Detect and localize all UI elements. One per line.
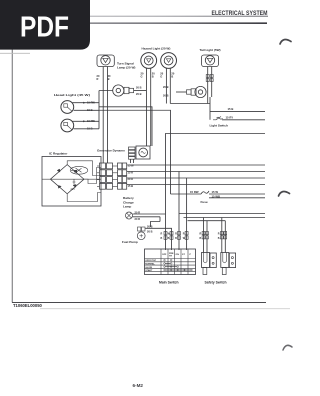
safety switch connector pairs xyxy=(202,232,227,239)
IC regulator transistor Q1 xyxy=(67,161,101,202)
svg-text:15 W: 15 W xyxy=(212,190,219,194)
svg-text:Lamp: Lamp xyxy=(123,205,131,209)
IC regulator U1 box xyxy=(42,157,101,207)
wire harness bus line 3 xyxy=(127,178,265,250)
svg-text:B: B xyxy=(218,237,220,240)
svg-text:15 RW: 15 RW xyxy=(190,190,199,194)
battery charge lamp L7 xyxy=(126,212,133,219)
svg-text:ST: ST xyxy=(182,254,185,256)
wire hazard to light switch horizontal xyxy=(170,97,210,120)
wire main feed horizontal with drop xyxy=(166,134,266,251)
fuel pump wire labels xyxy=(147,225,153,234)
svg-text:B: B xyxy=(168,237,170,240)
svg-text:NORMAL: NORMAL xyxy=(145,263,155,266)
header thick rule xyxy=(12,22,267,24)
svg-text:B: B xyxy=(108,77,110,81)
hazard lamp L3 xyxy=(161,53,177,69)
svg-text:15 B: 15 B xyxy=(87,108,93,112)
wire harness bus line 1 xyxy=(127,164,265,166)
svg-text:R: R xyxy=(183,232,185,235)
svg-text:15 B: 15 B xyxy=(228,107,234,111)
hazard lamp L2 xyxy=(141,53,157,69)
generator G1 xyxy=(136,146,150,159)
svg-text:T1060EL00050: T1060EL00050 xyxy=(13,303,43,308)
svg-text:21V: 21V xyxy=(71,188,76,191)
wire harness bus line 4 xyxy=(127,184,265,186)
svg-text:20 B: 20 B xyxy=(136,92,142,96)
connector stack CN3 xyxy=(100,163,113,189)
svg-text:Tail Light (5W): Tail Light (5W) xyxy=(200,48,221,52)
svg-text:15 RW: 15 RW xyxy=(87,100,95,104)
svg-text:START: START xyxy=(145,269,153,272)
turn signal lamp L1 xyxy=(97,55,114,67)
svg-text:G: G xyxy=(141,75,143,79)
bullet connector CN2 labels xyxy=(163,85,169,97)
wire harness bus line 2 xyxy=(127,172,265,251)
wire head light L5 stubs xyxy=(73,102,100,111)
wire fuel pump feed xyxy=(145,228,171,250)
page curl mark middle xyxy=(279,192,290,197)
wire head light L6 stubs xyxy=(73,120,100,128)
svg-text:20 B: 20 B xyxy=(136,86,142,90)
svg-text:Main Switch: Main Switch xyxy=(159,281,179,285)
faint rule under drawing number xyxy=(40,308,290,310)
svg-text:15 B: 15 B xyxy=(87,126,93,130)
svg-text:OFF: OFF xyxy=(162,254,167,256)
main switch contact dots xyxy=(164,259,193,271)
wire head light bus pair xyxy=(99,107,171,194)
wire safety feed 1 xyxy=(184,217,266,219)
svg-text:15 R: 15 R xyxy=(128,170,134,174)
wire safety switch SW4 leads xyxy=(222,218,226,253)
wire below fuse xyxy=(209,197,265,199)
stack wire labels xyxy=(128,164,135,188)
wire regulator box to stack xyxy=(97,166,118,186)
fuse labels right xyxy=(212,190,221,199)
svg-text:Head Light (45 W): Head Light (45 W) xyxy=(54,93,90,97)
svg-text:15 RW: 15 RW xyxy=(87,119,95,123)
tail lead inline connectors xyxy=(206,75,213,82)
head light L5 wire labels xyxy=(87,100,95,112)
main switch table row labels xyxy=(145,260,156,272)
svg-text:G: G xyxy=(160,75,162,79)
wire battery charge lamp stubs xyxy=(133,214,166,227)
svg-text:Hazard Light (20 W): Hazard Light (20 W) xyxy=(142,47,171,51)
svg-text:ON: ON xyxy=(176,254,180,256)
svg-text:GLOW: GLOW xyxy=(145,267,153,269)
svg-text:15 RY: 15 RY xyxy=(226,115,234,119)
wire tail light leads xyxy=(208,67,212,104)
svg-text:20 B: 20 B xyxy=(147,229,153,233)
wire head light junction vertical xyxy=(99,91,113,129)
generator connector hatch xyxy=(129,147,136,159)
connector stack CN4 xyxy=(118,163,127,189)
svg-text:Generator Dynamo: Generator Dynamo xyxy=(97,149,125,153)
svg-text:20 R: 20 R xyxy=(135,210,141,214)
main switch harness connectors xyxy=(164,232,188,240)
light switch SW1 contact xyxy=(213,117,223,120)
fuse F1 xyxy=(171,191,266,194)
svg-text:Light Switch: Light Switch xyxy=(210,123,228,127)
battery charge lamp label xyxy=(123,196,134,209)
svg-text:OFF/STOP: OFF/STOP xyxy=(145,260,156,262)
svg-text:B: B xyxy=(200,237,202,240)
svg-text:R: R xyxy=(218,232,220,235)
svg-text:20 B: 20 B xyxy=(163,85,169,89)
wire generator to connector stack xyxy=(131,160,134,164)
svg-text:P: P xyxy=(190,254,192,256)
bullet connector CN2 xyxy=(176,86,206,97)
main switch SW2 table xyxy=(145,249,196,275)
safety switch SW3 body xyxy=(202,253,217,275)
wire hazard lamp L2 leads xyxy=(147,68,151,146)
header thin rule xyxy=(12,15,268,17)
IC regulator bridge diamond xyxy=(42,165,101,194)
svg-text:Fuse: Fuse xyxy=(201,200,209,204)
svg-text:Lamp (20 W): Lamp (20 W) xyxy=(117,66,135,70)
schematic frame bottom border xyxy=(12,302,266,304)
svg-text:15 W: 15 W xyxy=(128,164,135,168)
fuel pump M1 xyxy=(137,227,145,240)
svg-text:6-M2: 6-M2 xyxy=(133,383,144,388)
bullet connector CN1 xyxy=(113,85,146,96)
battery charge lamp wire labels xyxy=(135,210,141,221)
svg-text:R: R xyxy=(200,232,202,235)
svg-text:B: B xyxy=(171,75,173,79)
page curl mark bottom xyxy=(283,345,292,350)
svg-text:IC Regulator: IC Regulator xyxy=(49,152,68,156)
main switch table header text xyxy=(162,253,192,258)
turn signal wire labels 20R 20B xyxy=(97,74,112,81)
svg-text:PDF: PDF xyxy=(20,12,69,44)
wire light switch feed 15B xyxy=(210,111,265,113)
wire hazard lamp L3 leads xyxy=(166,68,170,104)
main switch connector labels xyxy=(161,232,220,240)
safety switch SW4 body xyxy=(221,253,236,275)
svg-text:20 B: 20 B xyxy=(163,93,169,97)
svg-text:20 B: 20 B xyxy=(147,225,153,229)
svg-text:R: R xyxy=(97,77,99,81)
bullet connector CN1 labels xyxy=(136,86,142,96)
page curl mark top xyxy=(280,40,291,45)
head light lamp L6 xyxy=(61,119,74,132)
tail light lamp L4 xyxy=(202,55,219,67)
PDF badge xyxy=(0,0,90,50)
wire battery feed right xyxy=(179,213,265,215)
wire safety switch SW3 leads xyxy=(204,218,208,253)
hazard wire labels xyxy=(141,72,175,79)
svg-text:B: B xyxy=(161,237,163,240)
svg-text:R: R xyxy=(161,232,163,235)
svg-text:R: R xyxy=(175,232,177,235)
svg-text:20 R: 20 R xyxy=(135,217,141,221)
svg-text:Safety Switch: Safety Switch xyxy=(205,281,227,285)
badge shadow line xyxy=(0,52,30,54)
head light lamp L5 xyxy=(61,101,74,114)
svg-text:HT: HT xyxy=(169,256,173,258)
svg-text:Fuel Pump: Fuel Pump xyxy=(122,240,138,244)
wire turn signal leads xyxy=(103,67,107,164)
svg-text:B: B xyxy=(175,237,177,240)
schematic frame left border xyxy=(11,23,13,303)
head light L6 wire labels xyxy=(87,119,95,130)
wire safety feed 2 xyxy=(188,220,226,222)
wire light switch out 15RY xyxy=(222,119,265,121)
svg-text:B: B xyxy=(152,75,154,79)
